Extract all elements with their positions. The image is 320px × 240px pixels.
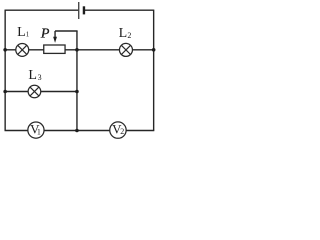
svg-text:1: 1 — [37, 128, 41, 137]
svg-text:1: 1 — [26, 31, 30, 39]
svg-text:2: 2 — [127, 31, 131, 40]
svg-text:3: 3 — [38, 73, 42, 82]
svg-text:L: L — [119, 26, 128, 41]
svg-text:L: L — [28, 68, 37, 83]
svg-text:P: P — [40, 27, 50, 42]
svg-text:L: L — [17, 25, 26, 40]
svg-text:2: 2 — [120, 127, 124, 136]
